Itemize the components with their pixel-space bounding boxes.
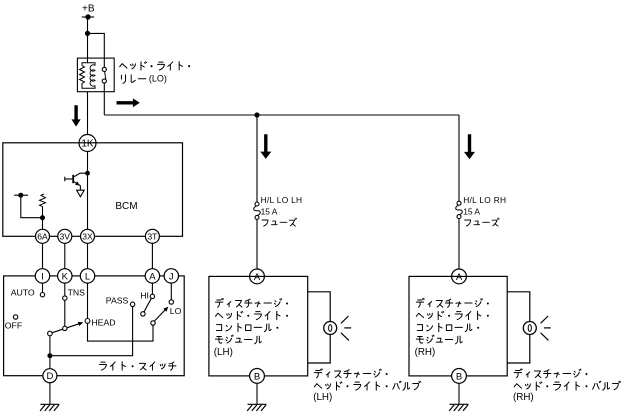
wire junction to relay coil bbox=[87, 33, 89, 63]
svg-text:15 A: 15 A bbox=[261, 207, 278, 217]
module box RH bbox=[409, 276, 507, 376]
terminal B right module bbox=[452, 369, 467, 384]
label fuse1 fuse bbox=[262, 218, 297, 226]
module RH line3 bbox=[417, 323, 479, 331]
svg-text:D: D bbox=[46, 371, 53, 382]
fuse F1 top bbox=[255, 202, 259, 206]
svg-text:A: A bbox=[254, 272, 261, 283]
svg-text:H/L LO LH: H/L LO LH bbox=[261, 195, 303, 205]
connector A bbox=[145, 269, 159, 283]
dimmer lever arrow to LO bbox=[163, 307, 168, 312]
wire L to HEAD contact bbox=[87, 283, 89, 318]
wire bus horizontal bbox=[104, 114, 459, 116]
relay coil loop bbox=[82, 63, 95, 88]
wire HEAD to dimmer pivot bbox=[88, 323, 154, 341]
fuse F2 bottom bbox=[457, 215, 461, 219]
svg-text:K: K bbox=[62, 271, 69, 282]
connector D bbox=[43, 369, 57, 383]
wire relay contact down bbox=[103, 92, 105, 115]
contact HI bottom bbox=[141, 312, 145, 316]
label fuse2 fuse bbox=[465, 218, 500, 226]
wire 3V to K bbox=[64, 243, 66, 268]
bulb caption LH line2 bbox=[314, 381, 420, 390]
contact dimmer pivot bbox=[151, 321, 155, 325]
svg-text:AUTO: AUTO bbox=[11, 288, 35, 298]
relay box bbox=[77, 58, 114, 92]
svg-text:3X: 3X bbox=[82, 231, 93, 241]
wire branch to relay contact bbox=[88, 33, 105, 68]
relay contact bottom bbox=[102, 79, 106, 83]
module LH line2 bbox=[215, 311, 288, 319]
svg-text:(LO): (LO) bbox=[149, 73, 167, 83]
bulb lamp LH bbox=[324, 322, 337, 335]
wire TNS to lever node bbox=[64, 300, 66, 326]
terminal tick inside BCM bbox=[14, 194, 28, 196]
svg-text:B: B bbox=[254, 371, 260, 382]
svg-text:PASS: PASS bbox=[106, 296, 129, 306]
svg-text:HI: HI bbox=[140, 291, 149, 301]
node lever on TNS line bbox=[63, 326, 67, 330]
svg-text:B: B bbox=[456, 371, 462, 382]
connector 3T bbox=[145, 229, 159, 243]
label headlight relay line1 bbox=[120, 62, 191, 70]
module RH line4 bbox=[416, 335, 462, 344]
svg-text:+B: +B bbox=[82, 4, 95, 15]
connector 3V bbox=[58, 229, 72, 243]
svg-text:HEAD: HEAD bbox=[91, 317, 115, 327]
connector 6A bbox=[36, 229, 50, 243]
contact TNS bbox=[63, 296, 67, 300]
svg-text:1K: 1K bbox=[81, 139, 94, 150]
terminal B left module bbox=[250, 369, 265, 384]
svg-text:(LH): (LH) bbox=[313, 392, 332, 403]
relay coil inductor bbox=[90, 65, 95, 86]
bulb caption RH line1 bbox=[514, 369, 587, 378]
wire J to LO contact bbox=[170, 283, 172, 300]
fuse F2 element bbox=[456, 205, 463, 215]
svg-text:(LH): (LH) bbox=[214, 347, 233, 358]
module RH line2 bbox=[416, 311, 489, 319]
bulb rays LH bbox=[341, 316, 351, 340]
switch lever arrow to HEAD bbox=[78, 322, 83, 326]
module LH line1 bbox=[215, 298, 288, 307]
wire pivot down to D bbox=[49, 336, 51, 369]
connector K bbox=[58, 269, 72, 283]
terminal A left module bbox=[250, 269, 265, 284]
flow arrow right branch bbox=[464, 134, 475, 159]
relay coil resistor bbox=[80, 66, 85, 86]
junction bus left branch bbox=[254, 112, 259, 117]
connector J bbox=[164, 269, 178, 283]
wire junction to PASS bbox=[50, 307, 133, 356]
module RH line1 bbox=[416, 298, 489, 307]
terminal +B tick bbox=[82, 16, 94, 18]
contact HEAD bbox=[85, 319, 90, 324]
transistor Q1 bbox=[65, 173, 88, 190]
svg-text:J: J bbox=[169, 271, 174, 282]
svg-text:H/L LO RH: H/L LO RH bbox=[463, 195, 506, 205]
contact AUTO bbox=[40, 293, 44, 297]
relay contact blade bbox=[105, 71, 106, 79]
label light switch bbox=[99, 362, 175, 370]
junction +B branch bbox=[85, 31, 90, 36]
contact LO bbox=[169, 300, 173, 304]
junction above 6A bbox=[40, 215, 45, 220]
flow arrow down at relay bbox=[72, 105, 81, 126]
svg-text:L: L bbox=[85, 271, 90, 282]
contact lever pivot bbox=[48, 331, 53, 336]
label headlight relay line2 bbox=[121, 75, 145, 83]
connector 3X bbox=[81, 229, 95, 243]
module LH line3 bbox=[216, 323, 278, 331]
node transistor collector junction bbox=[85, 171, 90, 176]
arrow off-page below Q1 bbox=[77, 190, 85, 197]
wire junction to 6A bbox=[42, 218, 44, 230]
terminal A right module bbox=[452, 269, 467, 284]
bulb caption LH line1 bbox=[314, 369, 387, 378]
fuse F1 element bbox=[254, 206, 261, 216]
svg-text:15 A: 15 A bbox=[463, 207, 480, 217]
wire terminal to junction bbox=[21, 195, 43, 218]
svg-text:A: A bbox=[149, 271, 156, 282]
wire A to HI contact bbox=[151, 283, 153, 294]
ground module RH bbox=[449, 404, 468, 411]
connector I bbox=[35, 269, 49, 283]
terminal +B dot bbox=[85, 14, 90, 19]
svg-text:OFF: OFF bbox=[5, 321, 22, 331]
wire relay coil to 1K bbox=[87, 92, 89, 135]
bulb caption RH line2 bbox=[514, 381, 620, 390]
switch lever main bbox=[52, 323, 81, 333]
fuse F1 bottom bbox=[255, 215, 259, 219]
svg-text:3V: 3V bbox=[60, 231, 71, 241]
contact HI top bbox=[150, 294, 154, 298]
svg-text:TNS: TNS bbox=[68, 287, 86, 297]
wire 3T to A bbox=[151, 243, 153, 268]
wire B to ground RH bbox=[458, 383, 460, 404]
wire B to ground LH bbox=[256, 383, 258, 404]
wire fuse1 to A bbox=[256, 219, 258, 269]
relay contact top bbox=[102, 67, 106, 71]
fuse F2 top bbox=[457, 201, 461, 205]
bulb rays RH bbox=[541, 316, 551, 340]
connector 1K bbox=[79, 135, 96, 152]
wire K to TNS contact bbox=[64, 283, 66, 296]
svg-text:(RH): (RH) bbox=[415, 347, 436, 358]
connector L bbox=[80, 269, 94, 283]
resistor R1 bbox=[40, 194, 46, 218]
bulb lamp RH bbox=[523, 322, 536, 335]
wire D to ground bbox=[49, 383, 51, 405]
module LH line4 bbox=[215, 335, 261, 344]
wire 6A to I bbox=[42, 243, 44, 268]
ground light switch bbox=[40, 404, 59, 411]
wire fuse2 to A bbox=[458, 219, 460, 269]
svg-text:LO: LO bbox=[170, 306, 182, 316]
svg-text:3T: 3T bbox=[147, 231, 158, 241]
wire +B to junction bbox=[87, 17, 89, 33]
flow arrow right at relay bbox=[117, 98, 140, 107]
junction pivot-PASS bbox=[47, 353, 52, 358]
terminal dot inside BCM bbox=[18, 193, 23, 198]
contact PASS bbox=[130, 302, 134, 306]
module box LH bbox=[209, 276, 308, 376]
bulb housing box LH bbox=[308, 292, 331, 363]
switch lever dimmer bbox=[155, 309, 167, 321]
wire 3X to L bbox=[87, 243, 89, 268]
relay contact wire lower bbox=[103, 83, 105, 92]
wire HI slant bbox=[144, 298, 152, 312]
svg-text:(RH): (RH) bbox=[513, 392, 534, 403]
svg-text:I: I bbox=[41, 271, 44, 282]
transistor Q1 emitter arrow bbox=[75, 181, 80, 185]
bulb housing box RH bbox=[507, 292, 530, 363]
wire bus to left fuse bbox=[256, 115, 258, 202]
svg-text:A: A bbox=[456, 272, 463, 283]
wire 1K to 3X inside BCM bbox=[87, 152, 89, 230]
ground module LH bbox=[247, 404, 266, 411]
svg-text:6A: 6A bbox=[37, 231, 48, 241]
BCM box bbox=[3, 143, 183, 237]
light switch box bbox=[4, 276, 185, 376]
wire bus corner to right fuse bbox=[458, 115, 460, 201]
contact OFF bbox=[13, 315, 17, 319]
flow arrow left branch bbox=[260, 134, 271, 159]
svg-text:BCM: BCM bbox=[115, 201, 137, 212]
wire I to AUTO contact bbox=[42, 283, 44, 292]
